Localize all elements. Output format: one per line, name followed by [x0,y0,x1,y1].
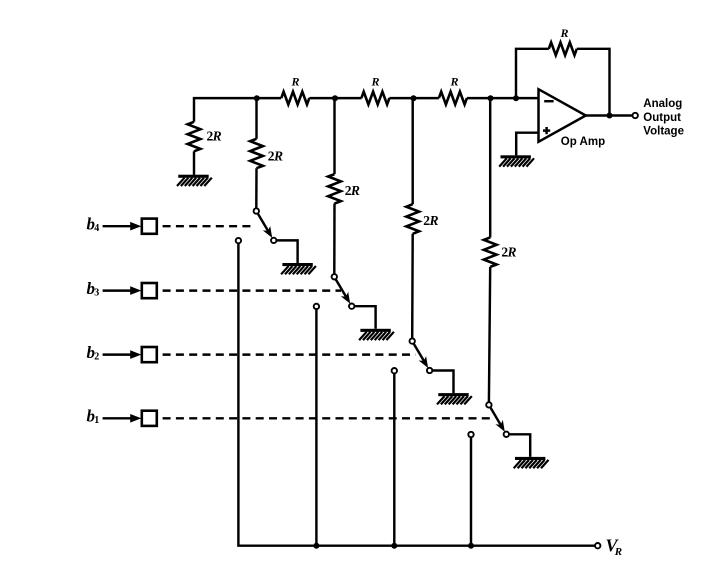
svg-text:2R: 2R [207,129,222,144]
svg-text:R: R [290,75,299,89]
svg-text:Analog: Analog [643,98,682,110]
svg-text:Op Amp: Op Amp [561,136,605,148]
svg-text:2R: 2R [345,183,360,198]
svg-text:2R: 2R [501,245,516,260]
svg-text:R: R [370,75,379,89]
svg-text:2R: 2R [423,213,438,228]
svg-text:4: 4 [94,223,99,234]
svg-text:R: R [449,75,458,89]
svg-text:R: R [559,26,568,40]
svg-text:1: 1 [94,415,99,426]
svg-text:2R: 2R [268,149,283,164]
svg-text:Voltage: Voltage [643,125,684,137]
svg-text:Output: Output [643,112,681,124]
svg-text:R: R [614,546,622,558]
svg-text:3: 3 [94,287,99,298]
svg-text:2: 2 [94,351,99,362]
